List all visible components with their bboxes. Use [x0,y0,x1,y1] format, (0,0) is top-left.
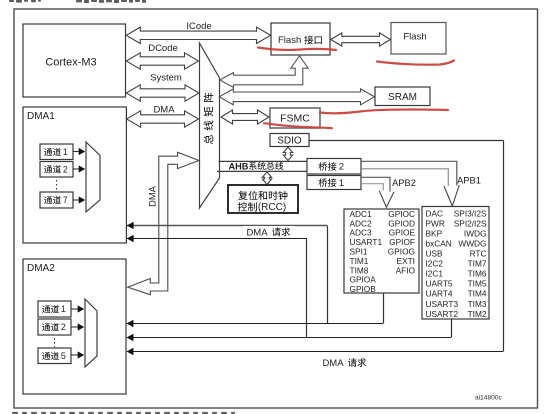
SRAM box [375,87,430,106]
arrow AHB-RCC [262,172,271,185]
svg-text:DMA: DMA [322,358,344,369]
APB1 peripherals box [422,207,489,320]
wire junction down from line1 [327,226,329,324]
Flash interface box [271,23,330,55]
svg-text:TIM3: TIM3 [468,299,487,309]
svg-text:1: 1 [339,178,344,188]
svg-text:5: 5 [61,351,66,361]
DCode arrow [126,53,198,69]
svg-text:ai14800c: ai14800c [475,395,502,402]
DMA2 channel 5 [38,348,71,364]
DMA2 channel 2 [38,319,71,335]
SDIO box [270,134,309,147]
svg-text:Flash: Flash [278,35,301,46]
svg-text:I2C2: I2C2 [426,259,444,269]
wire ch2-mux [73,168,80,170]
bent arrow matrix to Flash interface [220,56,308,88]
svg-text:AFIO: AFIO [396,265,416,275]
svg-text:IWDG: IWDG [464,228,487,238]
red underline Flash interface [258,48,336,51]
DMA2 channel 1 [38,301,71,317]
DMA1 channel 2 [40,162,73,178]
bottom caption sliver [12,412,235,414]
wire DMA2 ch1-mux [71,308,79,310]
Cortex-M3 box [23,24,126,97]
svg-text:TIM2: TIM2 [468,309,487,319]
svg-text:TIM5: TIM5 [468,279,487,289]
svg-text:TIM4: TIM4 [468,289,487,299]
svg-text:DMA2: DMA2 [27,263,55,274]
svg-text:UART5: UART5 [426,279,453,289]
ICode arrow [126,27,270,43]
svg-text:2: 2 [339,162,344,172]
wire ch1-mux [73,151,80,153]
svg-text:WWDG: WWDG [458,239,486,249]
wire DMA2 ch2-mux [71,326,79,328]
FSMC box [270,108,320,128]
svg-text:2: 2 [61,322,66,332]
DMA2 box [23,259,126,394]
Flash box [391,23,446,55]
wire APB2 box down [383,293,385,323]
svg-text:SDIO: SDIO [277,136,302,147]
svg-text:AHB: AHB [229,161,249,171]
DMA1 channel 1 [40,144,73,160]
svg-text:(RCC): (RCC) [258,202,286,213]
svg-text:TIM7: TIM7 [468,259,487,269]
wire SDIO down to DMA2 request [503,141,505,352]
svg-text:APB2: APB2 [392,178,416,188]
connector bridge1 to APB2 [361,177,390,191]
bridge 1 box [307,176,361,190]
DMA request label upper [243,226,295,237]
svg-text:1: 1 [63,147,68,157]
wire DMA2 ch5-mux [71,354,79,356]
SRAM arrow [219,89,374,105]
dotted line DMA1 channels [56,180,58,191]
DMA band label [148,185,158,206]
wire ch7-mux [73,199,80,201]
red underline Flash [377,61,454,65]
svg-text:DMA1: DMA1 [27,111,55,122]
DMA2 mux [85,299,97,367]
connector bridge2 to APB1 [361,161,457,185]
svg-text:USART2: USART2 [426,309,459,319]
svg-text:FSMC: FSMC [280,113,310,125]
DMA request line 1 into DMA1 [127,225,327,227]
APB2 peripherals box [344,209,419,293]
DMA request line into DMA2 from APB2 [127,323,384,325]
svg-text:System: System [150,73,182,84]
wire SDIO right [309,140,504,142]
red underline SRAM [320,110,448,114]
DMA request line 2 into DMA1 [127,238,307,240]
svg-text:SPI3/I2S: SPI3/I2S [454,208,487,218]
svg-text:GPIOB: GPIOB [350,284,377,294]
svg-text:bxCAN: bxCAN [426,239,452,249]
AHB system bus lines [219,160,308,162]
svg-text:SPI2/I2S: SPI2/I2S [454,218,487,228]
svg-text:DAC: DAC [426,208,444,218]
svg-text:DCode: DCode [148,43,178,54]
svg-text:SRAM: SRAM [388,92,417,103]
svg-text:ICode: ICode [186,21,211,32]
DMA arrow [127,111,199,127]
svg-text:USB: USB [426,249,444,259]
DMA1 channel 7 [40,192,73,208]
svg-text:I2C1: I2C1 [426,269,444,279]
svg-text:UART4: UART4 [426,289,453,299]
DMA bus band (matrix to DMA2) [128,152,199,295]
svg-text:DMA: DMA [246,227,268,238]
bridge 2 box [307,159,361,175]
dotted line DMA2 channels [54,338,56,347]
DMA request line into DMA2 from APB1 [127,337,452,339]
svg-text:Cortex-M3: Cortex-M3 [45,57,96,69]
svg-text:BKP: BKP [426,228,443,238]
svg-text:PWR: PWR [426,218,445,228]
DMA1 mux [86,142,100,212]
svg-text:2: 2 [63,164,68,174]
System arrow [126,85,199,101]
svg-text:DMA: DMA [153,105,175,116]
svg-text:DMA: DMA [148,185,158,206]
svg-text:RTC: RTC [470,249,487,259]
svg-text:TIM6: TIM6 [468,269,487,279]
arrow SDIO-AHB [283,147,292,161]
wire APB1 box down [451,319,453,337]
arrow FlashIF-Flash [331,33,391,46]
RCC box (reset and clock control) [228,185,298,213]
svg-text:7: 7 [63,195,68,205]
DMA request line into DMA2 from SDIO [127,351,504,353]
svg-text:Flash: Flash [403,32,426,43]
bus matrix [200,43,220,208]
svg-text:1: 1 [61,304,66,314]
red underline FSMC [264,123,332,128]
svg-text:APB1: APB1 [457,176,481,186]
svg-text:USART3: USART3 [426,299,459,309]
wire junction down from line2 [306,238,308,337]
DMA1 box [23,107,126,243]
top caption sliver [9,0,146,3]
FSMC arrow [221,110,269,124]
